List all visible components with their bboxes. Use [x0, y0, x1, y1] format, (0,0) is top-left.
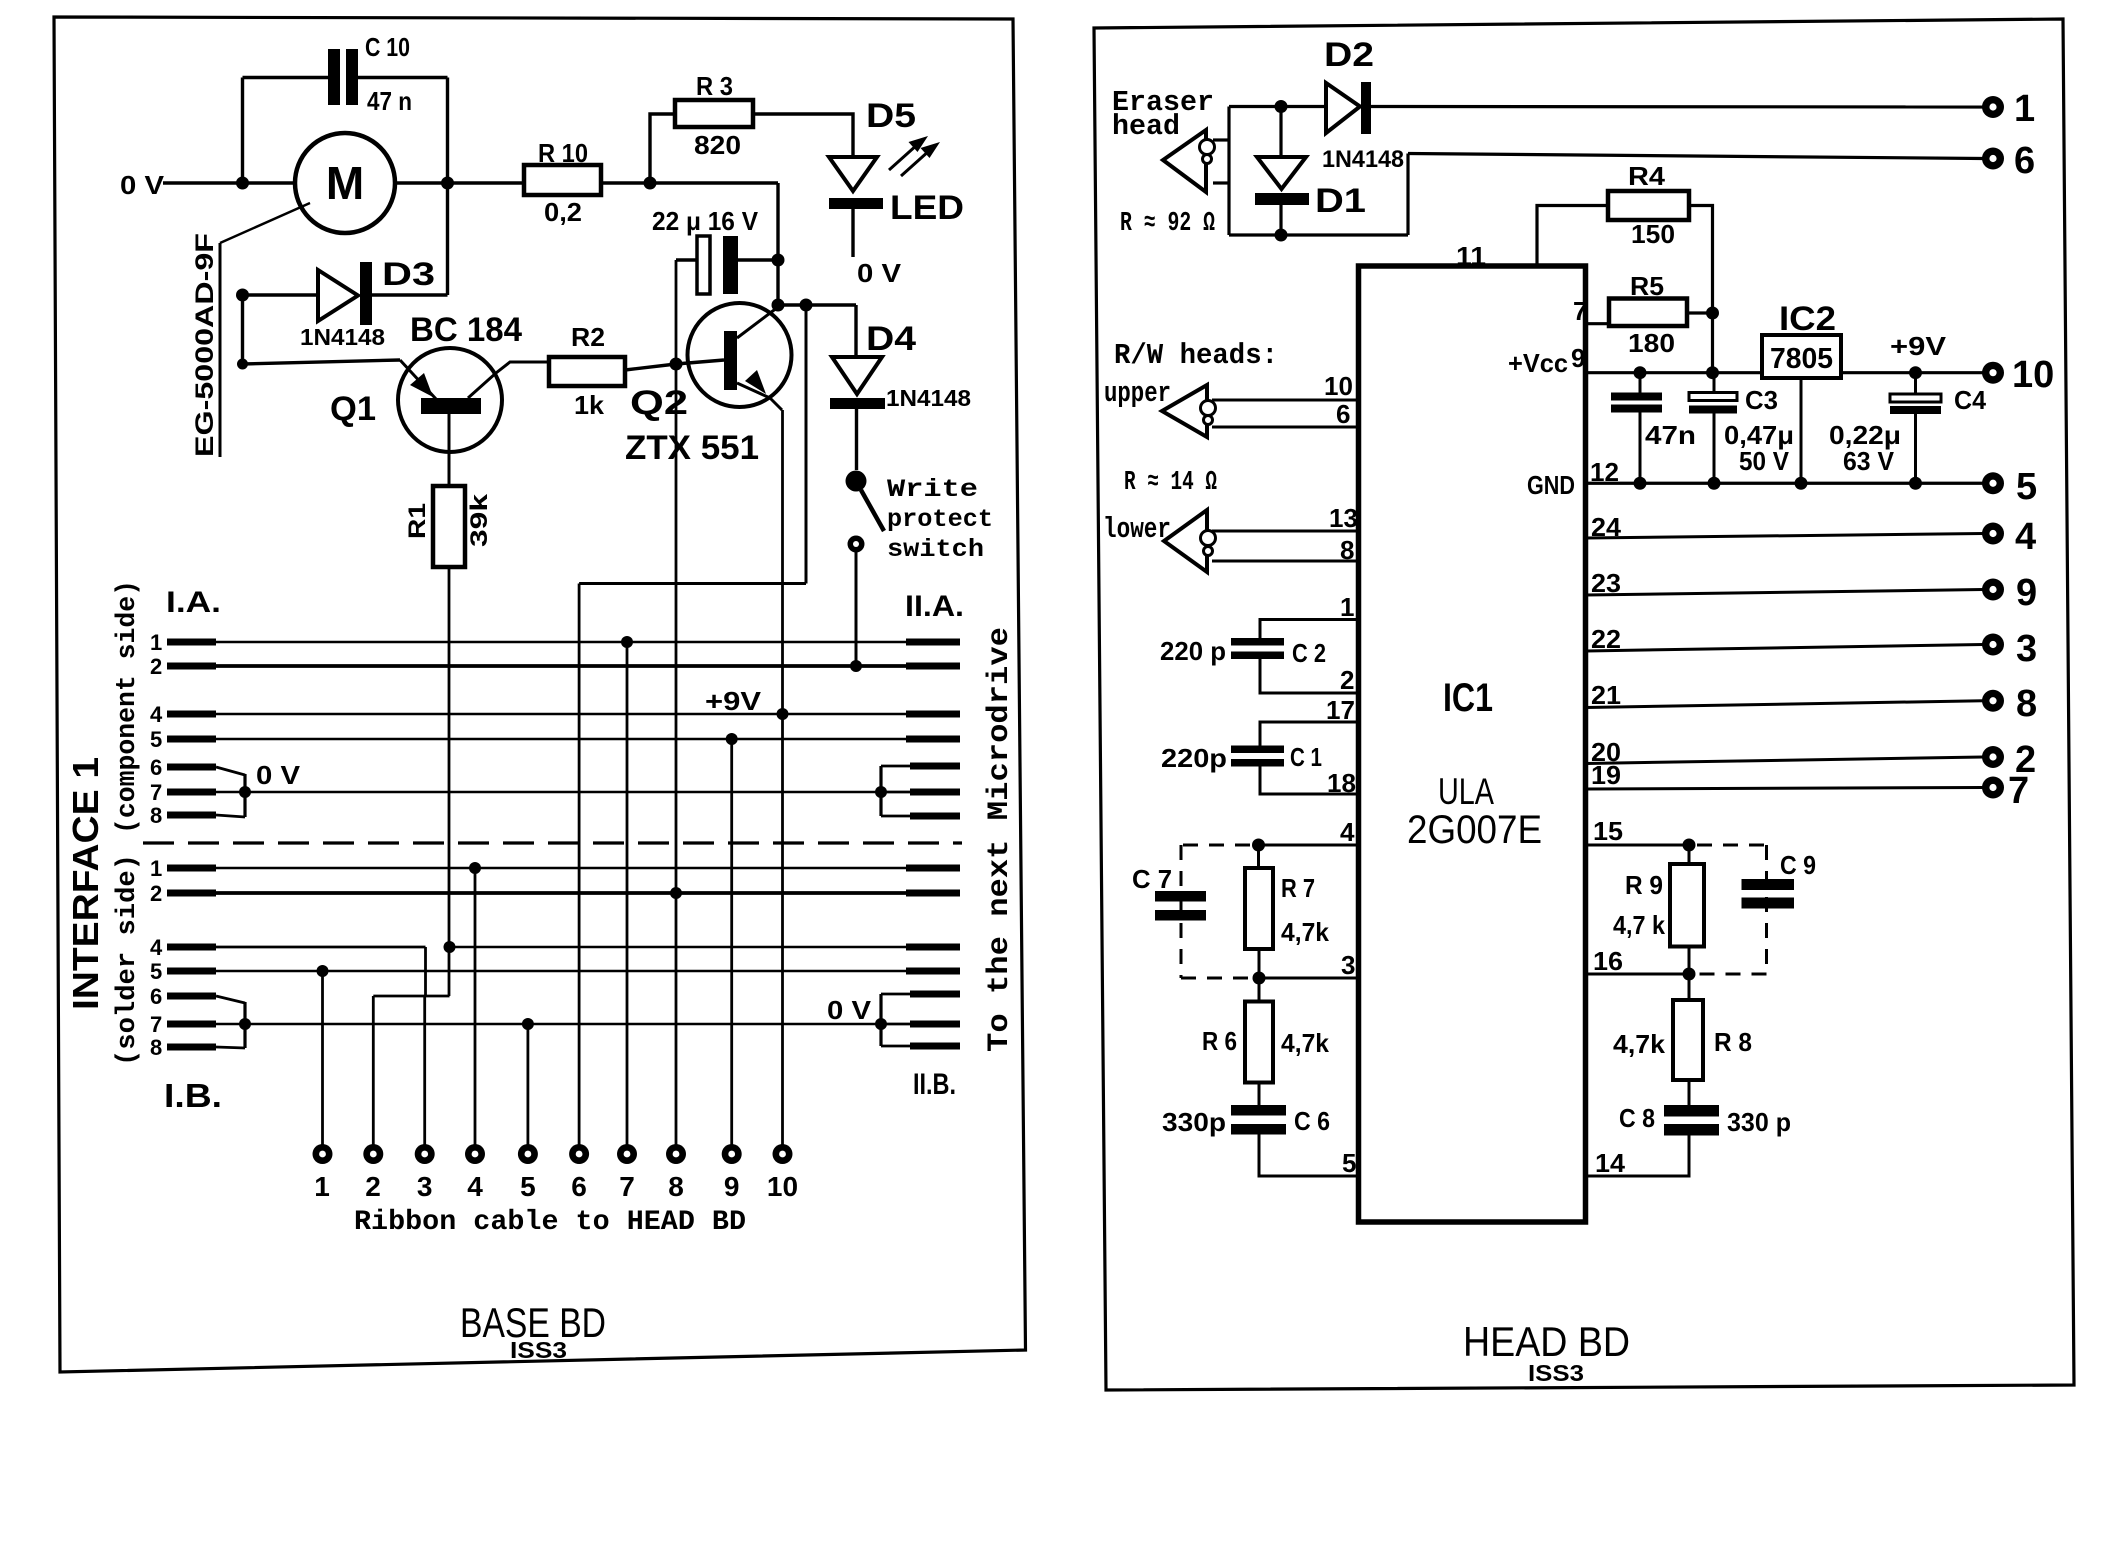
node pin15/R9 junction	[1683, 839, 1696, 852]
wire 0V to motor	[163, 181, 295, 184]
wire pin 13	[1212, 530, 1358, 533]
svg-text:R1: R1	[404, 503, 431, 539]
svg-text:1: 1	[314, 1171, 330, 1202]
svg-text:8: 8	[1340, 535, 1354, 565]
svg-text:16: 16	[1593, 946, 1623, 976]
svg-text:15: 15	[1593, 816, 1623, 846]
svg-text:7: 7	[150, 1012, 162, 1037]
svg-text:7: 7	[619, 1171, 635, 1202]
svg-text:1N4148: 1N4148	[1322, 146, 1404, 173]
wire I.A.7 row (0V bus)	[150, 780, 881, 805]
terminal number labels 1-10	[314, 1171, 798, 1202]
resistor R1 39k	[433, 486, 465, 567]
svg-text:I.A.: I.A.	[166, 586, 221, 619]
svg-text:0 V: 0 V	[120, 170, 165, 200]
diode D3	[318, 270, 358, 321]
svg-text:INTERFACE 1: INTERFACE 1	[65, 757, 106, 1010]
svg-text:50 V: 50 V	[1739, 446, 1790, 476]
node I.A.5 / terminal-9 junction	[726, 733, 738, 745]
wire I.B.1 row	[150, 856, 960, 881]
wire pin 23 to terminal 9	[1586, 590, 1983, 596]
svg-text:R 8: R 8	[1714, 1027, 1752, 1057]
wire collector vertical	[776, 183, 779, 305]
svg-text:22 μ 16 V: 22 μ 16 V	[652, 206, 759, 236]
svg-text:1N4148: 1N4148	[300, 324, 385, 350]
svg-text:13: 13	[1329, 503, 1358, 533]
terminal 7 (HEAD)	[1982, 777, 2004, 799]
svg-text:4: 4	[1340, 817, 1355, 847]
svg-text:330p: 330p	[1162, 1107, 1226, 1137]
eraser head symbol	[1163, 130, 1206, 192]
wire pin 11	[1537, 206, 1608, 267]
svg-text:+9V: +9V	[1890, 331, 1947, 361]
svg-text:24: 24	[1591, 512, 1622, 542]
node pin3/R6 junction	[1253, 972, 1266, 985]
svg-text:2: 2	[150, 881, 162, 906]
wire I.B.7 row (0V bus)	[150, 1012, 881, 1037]
capacitor C1 220p	[1260, 722, 1358, 746]
node I.A.1 / terminal-7 junction	[621, 636, 633, 648]
node pin16/R8 junction	[1683, 968, 1696, 981]
terminal 6 (HEAD)	[1982, 148, 2004, 170]
resistor R4 150	[1608, 191, 1689, 220]
transistor Q1 emitter arrow	[410, 373, 433, 397]
node I.B.7 / bracket junction	[239, 1018, 251, 1030]
svg-text:8: 8	[668, 1171, 684, 1202]
terminal 1 (HEAD)	[1982, 96, 2004, 118]
wire terminal 8 vertical	[675, 260, 678, 1145]
svg-text:9: 9	[2016, 572, 2037, 614]
svg-text:To the next Microdrive: To the next Microdrive	[983, 627, 1017, 1052]
wire I.B.2 row	[150, 881, 960, 906]
svg-text:47n: 47n	[1645, 420, 1696, 450]
svg-text:7: 7	[2008, 770, 2029, 812]
svg-text:IC1: IC1	[1443, 676, 1493, 720]
svg-text:R2: R2	[571, 322, 605, 352]
svg-text:ZTX 551: ZTX 551	[625, 429, 759, 467]
svg-text:4,7 k: 4,7 k	[1613, 910, 1665, 940]
svg-text:8: 8	[150, 1035, 162, 1060]
svg-text:R 6: R 6	[1202, 1026, 1237, 1056]
node C4 junction	[1909, 366, 1922, 379]
svg-text:R/W heads:: R/W heads:	[1114, 339, 1278, 372]
svg-text:0 V: 0 V	[827, 995, 872, 1025]
svg-text:HEAD BD: HEAD BD	[1463, 1318, 1630, 1365]
node C3 gnd junction	[1708, 477, 1721, 490]
svg-text:C 2: C 2	[1292, 638, 1326, 668]
wire I.B.5 row	[150, 959, 960, 984]
wire collector row to D4	[778, 303, 856, 306]
wire I.B.8 stub	[150, 1035, 245, 1060]
svg-text:2: 2	[150, 654, 162, 679]
node 0V junction	[236, 177, 249, 190]
wire dashed divider	[143, 841, 962, 844]
svg-text:22: 22	[1591, 624, 1621, 654]
terminal 4 (HEAD)	[1982, 523, 2004, 545]
wire pin 4	[1259, 844, 1359, 847]
wire II.A. 0V bracket	[881, 766, 960, 816]
svg-text:1: 1	[2014, 88, 2035, 130]
svg-text:180: 180	[1628, 328, 1675, 358]
resistor R3 820	[675, 100, 753, 127]
motor M (EG-5000AD-9F)	[295, 133, 395, 233]
svg-text:1k: 1k	[574, 390, 605, 420]
svg-text:D4: D4	[866, 320, 916, 358]
dashed box C7	[1181, 845, 1252, 978]
svg-text:IC2: IC2	[1779, 300, 1836, 338]
resistor R8 4,7k	[1688, 974, 1691, 1000]
svg-text:7: 7	[1573, 296, 1587, 326]
wire terminal 5 vertical	[527, 1024, 530, 1145]
svg-text:upper: upper	[1104, 377, 1171, 410]
node I.A.4 / terminal-10 junction	[777, 708, 789, 720]
svg-text:220 p: 220 p	[1160, 636, 1226, 666]
svg-text:M: M	[326, 157, 364, 209]
wire D2 row to terminal 1	[1229, 105, 1326, 108]
svg-text:R ≈ 14 Ω: R ≈ 14 Ω	[1124, 468, 1217, 498]
wire I.A.2 row	[150, 654, 960, 679]
svg-text:7805: 7805	[1770, 343, 1833, 375]
wire 22u right lead	[738, 258, 778, 261]
wire pin 9 +Vcc row	[1586, 371, 1762, 374]
svg-text:6: 6	[1336, 399, 1350, 429]
svg-text:9: 9	[1571, 343, 1585, 373]
svg-text:5: 5	[150, 727, 162, 752]
svg-text:D3: D3	[382, 256, 435, 292]
svg-text:LED: LED	[890, 189, 964, 227]
wire I.A.6 stub	[150, 755, 245, 780]
svg-text:14: 14	[1595, 1148, 1626, 1178]
wire pin 22 to terminal 3	[1586, 645, 1983, 652]
terminal 5 (HEAD)	[1982, 472, 2004, 494]
HEAD BD panel border	[1094, 19, 2074, 1390]
svg-text:+Vcc: +Vcc	[1508, 348, 1568, 378]
wire terminal 7 vertical	[626, 642, 629, 1145]
wire pin 24 to terminal 4	[1586, 534, 1983, 539]
wire Q1 collector	[468, 362, 549, 398]
wire pin 6	[1212, 426, 1358, 429]
svg-text:ULA: ULA	[1438, 771, 1494, 812]
wire terminal 6 vertical	[578, 584, 581, 1146]
upper R/W head	[1162, 385, 1207, 437]
svg-text:BC 184: BC 184	[410, 311, 522, 349]
svg-text:ISS3: ISS3	[1528, 1360, 1584, 1386]
svg-text:8: 8	[2016, 683, 2037, 725]
node R5/R4 junction	[1706, 307, 1719, 320]
diode D4	[854, 305, 857, 357]
wire Q1 emitter lead	[243, 360, 401, 364]
resistor R10 0,2	[524, 165, 601, 195]
wire pin 20 to terminal 2	[1586, 757, 1983, 764]
node D4 branch junction	[800, 299, 813, 312]
resistor R2 1k	[549, 357, 625, 386]
svg-text:Q1: Q1	[330, 390, 376, 428]
svg-text:10: 10	[767, 1171, 798, 1202]
svg-text:C 10: C 10	[365, 32, 410, 62]
svg-text:5: 5	[150, 959, 162, 984]
node Q2 collector junction	[772, 299, 785, 312]
wire pin 7	[1586, 322, 1609, 325]
svg-text:1: 1	[150, 630, 162, 655]
svg-text:II.A.: II.A.	[905, 590, 964, 623]
wire I.A.5 row	[150, 727, 960, 752]
wire pin 8	[1212, 560, 1358, 563]
svg-text:9: 9	[724, 1171, 740, 1202]
svg-text:4: 4	[150, 702, 163, 727]
svg-text:8: 8	[150, 803, 162, 828]
svg-text:12: 12	[1590, 457, 1619, 487]
resistor R6 4,7k	[1258, 978, 1261, 1002]
svg-text:+9V: +9V	[705, 686, 762, 716]
terminal 8 (HEAD)	[1982, 690, 2004, 712]
svg-text:C 9: C 9	[1780, 850, 1816, 880]
svg-text:39k: 39k	[466, 493, 493, 547]
capacitor C6 330p	[1231, 1105, 1286, 1135]
svg-text:(component side): (component side)	[113, 580, 143, 834]
wire pin 10	[1212, 399, 1358, 402]
terminal 9 (HEAD)	[1982, 579, 2004, 601]
svg-text:protect: protect	[887, 505, 993, 534]
wire pin 3	[1259, 977, 1358, 980]
wire C10 right vertical	[446, 78, 449, 296]
svg-text:Ribbon cable to HEAD BD: Ribbon cable to HEAD BD	[354, 1207, 746, 1238]
wire pin 12 GND row	[1586, 482, 1983, 485]
node II.B. bracket junction	[875, 1018, 887, 1030]
wire R2 to Q2 base	[625, 360, 724, 370]
svg-text:150: 150	[1631, 219, 1675, 249]
node 47n junction	[1634, 366, 1647, 379]
node motor-right junction	[441, 177, 454, 190]
capacitor C7	[1155, 891, 1206, 921]
svg-text:0 V: 0 V	[256, 760, 301, 790]
svg-text:R5: R5	[1630, 271, 1664, 301]
node R10/R3 junction	[644, 177, 657, 190]
terminal 10 (HEAD)	[1982, 362, 2004, 384]
wire R3 to D5	[753, 114, 853, 157]
wire eraser bottom row to terminal 6	[1229, 233, 1408, 236]
svg-text:R 3: R 3	[696, 71, 733, 101]
svg-text:5: 5	[1342, 1148, 1356, 1178]
wire I.A.1 row	[150, 630, 960, 655]
svg-text:C 6: C 6	[1294, 1106, 1330, 1136]
node pin4/R7 junction	[1252, 839, 1265, 852]
wire pin 16	[1586, 973, 1689, 976]
capacitor C10	[328, 49, 358, 105]
wire terminal 1 vertical	[321, 971, 324, 1145]
wire 7805 ground lead	[1800, 378, 1803, 483]
svg-text:2: 2	[1340, 665, 1354, 695]
svg-text:5: 5	[2016, 466, 2037, 508]
node C4 gnd junction	[1909, 477, 1922, 490]
wire terminal 3 vertical	[423, 996, 426, 1145]
node II.A. bracket junction	[875, 786, 887, 798]
write protect switch	[846, 471, 867, 492]
svg-text:3: 3	[1341, 950, 1355, 980]
wire 0V vertical to Q1	[241, 295, 244, 364]
svg-text:0 V: 0 V	[857, 258, 902, 288]
svg-text:C3: C3	[1745, 385, 1778, 415]
svg-text:4: 4	[150, 935, 163, 960]
wire 7805 to terminal 10	[1841, 371, 1983, 374]
wire Q2-net vertical to T6 row	[805, 305, 808, 584]
svg-text:330 p: 330 p	[1727, 1107, 1791, 1137]
wire Q1 to R1	[448, 414, 451, 486]
regulator IC2 7805	[1762, 335, 1841, 378]
svg-text:R ≈ 92 Ω: R ≈ 92 Ω	[1120, 209, 1215, 239]
svg-text:4,7k: 4,7k	[1613, 1029, 1666, 1059]
node D3 junction	[236, 289, 249, 302]
capacitor 47n (HEAD)	[1639, 373, 1642, 393]
node I.A.7 / bracket junction	[239, 786, 251, 798]
svg-text:I.B.: I.B.	[164, 1077, 222, 1114]
svg-text:3: 3	[2016, 628, 2037, 670]
svg-text:II.B.: II.B.	[913, 1068, 956, 1101]
wire I.A.8 stub	[150, 803, 245, 828]
wire R5 right	[1687, 311, 1713, 314]
pin labels left side	[1324, 371, 1358, 1178]
capacitor C4 0,22u 63V	[1914, 373, 1917, 394]
wire R1 to I.B.4	[448, 567, 451, 996]
wire 22u left lead	[676, 258, 697, 261]
wire terminal 4 vertical	[474, 868, 477, 1145]
svg-text:Q2: Q2	[630, 384, 688, 422]
wire I.A.4 row (+9V)	[150, 702, 960, 727]
wire pin 15	[1586, 844, 1689, 847]
node R4/C3 junction	[1706, 366, 1719, 379]
svg-text:63 V: 63 V	[1843, 446, 1895, 476]
svg-text:4,7k: 4,7k	[1281, 1028, 1330, 1058]
svg-text:2G007E: 2G007E	[1407, 808, 1542, 852]
wire terminal 9 vertical	[730, 739, 733, 1145]
svg-text:(solder side): (solder side)	[113, 854, 143, 1066]
svg-text:11: 11	[1456, 241, 1486, 271]
svg-text:6: 6	[571, 1171, 587, 1202]
capacitor C9	[1742, 879, 1795, 909]
wire R10 to Q2 collector corner	[601, 181, 778, 184]
svg-text:4: 4	[2015, 516, 2036, 558]
capacitor C8 330p	[1664, 1105, 1719, 1136]
svg-text:ISS3: ISS3	[510, 1337, 567, 1363]
lower R/W head	[1164, 510, 1207, 572]
wire R3 left	[650, 114, 675, 183]
svg-text:7: 7	[150, 780, 162, 805]
svg-text:D1: D1	[1315, 182, 1366, 220]
wire Q2-net horizontal	[579, 582, 806, 585]
wire 0V bracket left (I.B.)	[243, 1002, 246, 1048]
svg-text:3: 3	[417, 1171, 433, 1202]
svg-text:1: 1	[150, 856, 162, 881]
LED arrows	[889, 144, 930, 176]
node D1 bottom junction	[1275, 229, 1288, 242]
node I.A.2 / write-protect junction	[850, 660, 862, 672]
wire terminal 10 vertical	[781, 410, 784, 1145]
wire motor to EG label diagonal	[220, 203, 310, 243]
diode D2 1N4148	[1326, 83, 1360, 133]
wire EG label line	[219, 243, 222, 457]
capacitor C2 220p	[1260, 620, 1358, 639]
svg-text:5: 5	[520, 1171, 536, 1202]
svg-text:21: 21	[1591, 680, 1621, 710]
svg-text:C4: C4	[1954, 385, 1987, 415]
svg-text:1N4148: 1N4148	[886, 385, 971, 411]
svg-text:D5: D5	[866, 97, 916, 135]
wire D3 row	[243, 293, 319, 296]
wire terminal 2 vertical	[372, 996, 375, 1145]
svg-text:R 7: R 7	[1281, 873, 1315, 903]
node I.B.7 / terminal-5 junction	[522, 1018, 534, 1030]
svg-text:2: 2	[365, 1171, 381, 1202]
svg-text:10: 10	[1324, 371, 1353, 401]
diode D1	[1279, 107, 1282, 158]
svg-text:23: 23	[1591, 568, 1621, 598]
svg-text:C 8: C 8	[1619, 1103, 1655, 1133]
svg-text:Write: Write	[887, 475, 978, 504]
node I.B.2 / terminal-8 junction	[670, 887, 682, 899]
resistor R5 180	[1609, 299, 1687, 327]
wire I.B.4 row with jog	[150, 935, 960, 996]
node I.B.1 / terminal-4 junction	[469, 862, 481, 874]
svg-text:GND: GND	[1527, 470, 1575, 500]
wire pin 19 to terminal 7	[1586, 788, 1983, 790]
svg-text:10: 10	[2012, 354, 2054, 396]
svg-text:C 7: C 7	[1132, 864, 1172, 894]
svg-text:0,2: 0,2	[544, 197, 582, 227]
svg-text:6: 6	[2014, 140, 2035, 182]
wire motor right	[395, 181, 524, 184]
svg-text:220p: 220p	[1161, 743, 1227, 773]
wire eraser head leads	[1213, 138, 1229, 141]
ribbon terminals 1-10	[313, 1144, 793, 1164]
svg-text:head: head	[1112, 110, 1180, 143]
node D1 top junction	[1275, 100, 1288, 113]
IC1 ULA 2G007E box	[1359, 266, 1586, 1222]
node base/22u junction	[670, 358, 683, 371]
transistor Q1 BC184	[398, 348, 502, 452]
capacitor C3 0,47u 50V	[1713, 373, 1716, 393]
node 7805 gnd junction	[1795, 477, 1808, 490]
svg-text:R 10: R 10	[538, 138, 588, 168]
svg-text:47 n: 47 n	[367, 86, 412, 116]
svg-text:4,7k: 4,7k	[1281, 917, 1330, 947]
svg-text:R4: R4	[1628, 161, 1666, 191]
svg-text:EG-5000AD-9F: EG-5000AD-9F	[191, 233, 219, 457]
svg-text:820: 820	[694, 130, 741, 160]
wire I.B.6 stub	[150, 984, 245, 1009]
svg-text:C 1: C 1	[1290, 742, 1322, 772]
svg-text:6: 6	[150, 755, 162, 780]
dashed box C9	[1697, 845, 1767, 974]
diode D5 LED	[829, 157, 877, 191]
wire R4 right	[1689, 206, 1713, 373]
svg-text:R 9: R 9	[1625, 870, 1663, 900]
transistor Q2 ZTX551	[737, 307, 778, 338]
svg-text:switch: switch	[887, 535, 984, 564]
resistor R7 4,7k	[1257, 845, 1260, 868]
svg-text:19: 19	[1591, 760, 1621, 790]
BASE BD panel border	[54, 17, 1026, 1372]
wire 0V bracket left (I.A.)	[243, 774, 246, 817]
resistor R9 4,7k	[1688, 845, 1691, 864]
svg-text:6: 6	[150, 984, 162, 1009]
terminal 3 (HEAD)	[1982, 634, 2004, 656]
svg-text:1: 1	[1340, 592, 1354, 622]
wire C10 left vertical	[241, 78, 244, 184]
node 22u/collector junction	[772, 254, 785, 267]
wire II.B. 0V bracket	[881, 994, 960, 1046]
node I.B.4 / R1 junction	[444, 941, 456, 953]
node 47n gnd junction	[1634, 477, 1647, 490]
wire C10 top	[243, 76, 330, 79]
